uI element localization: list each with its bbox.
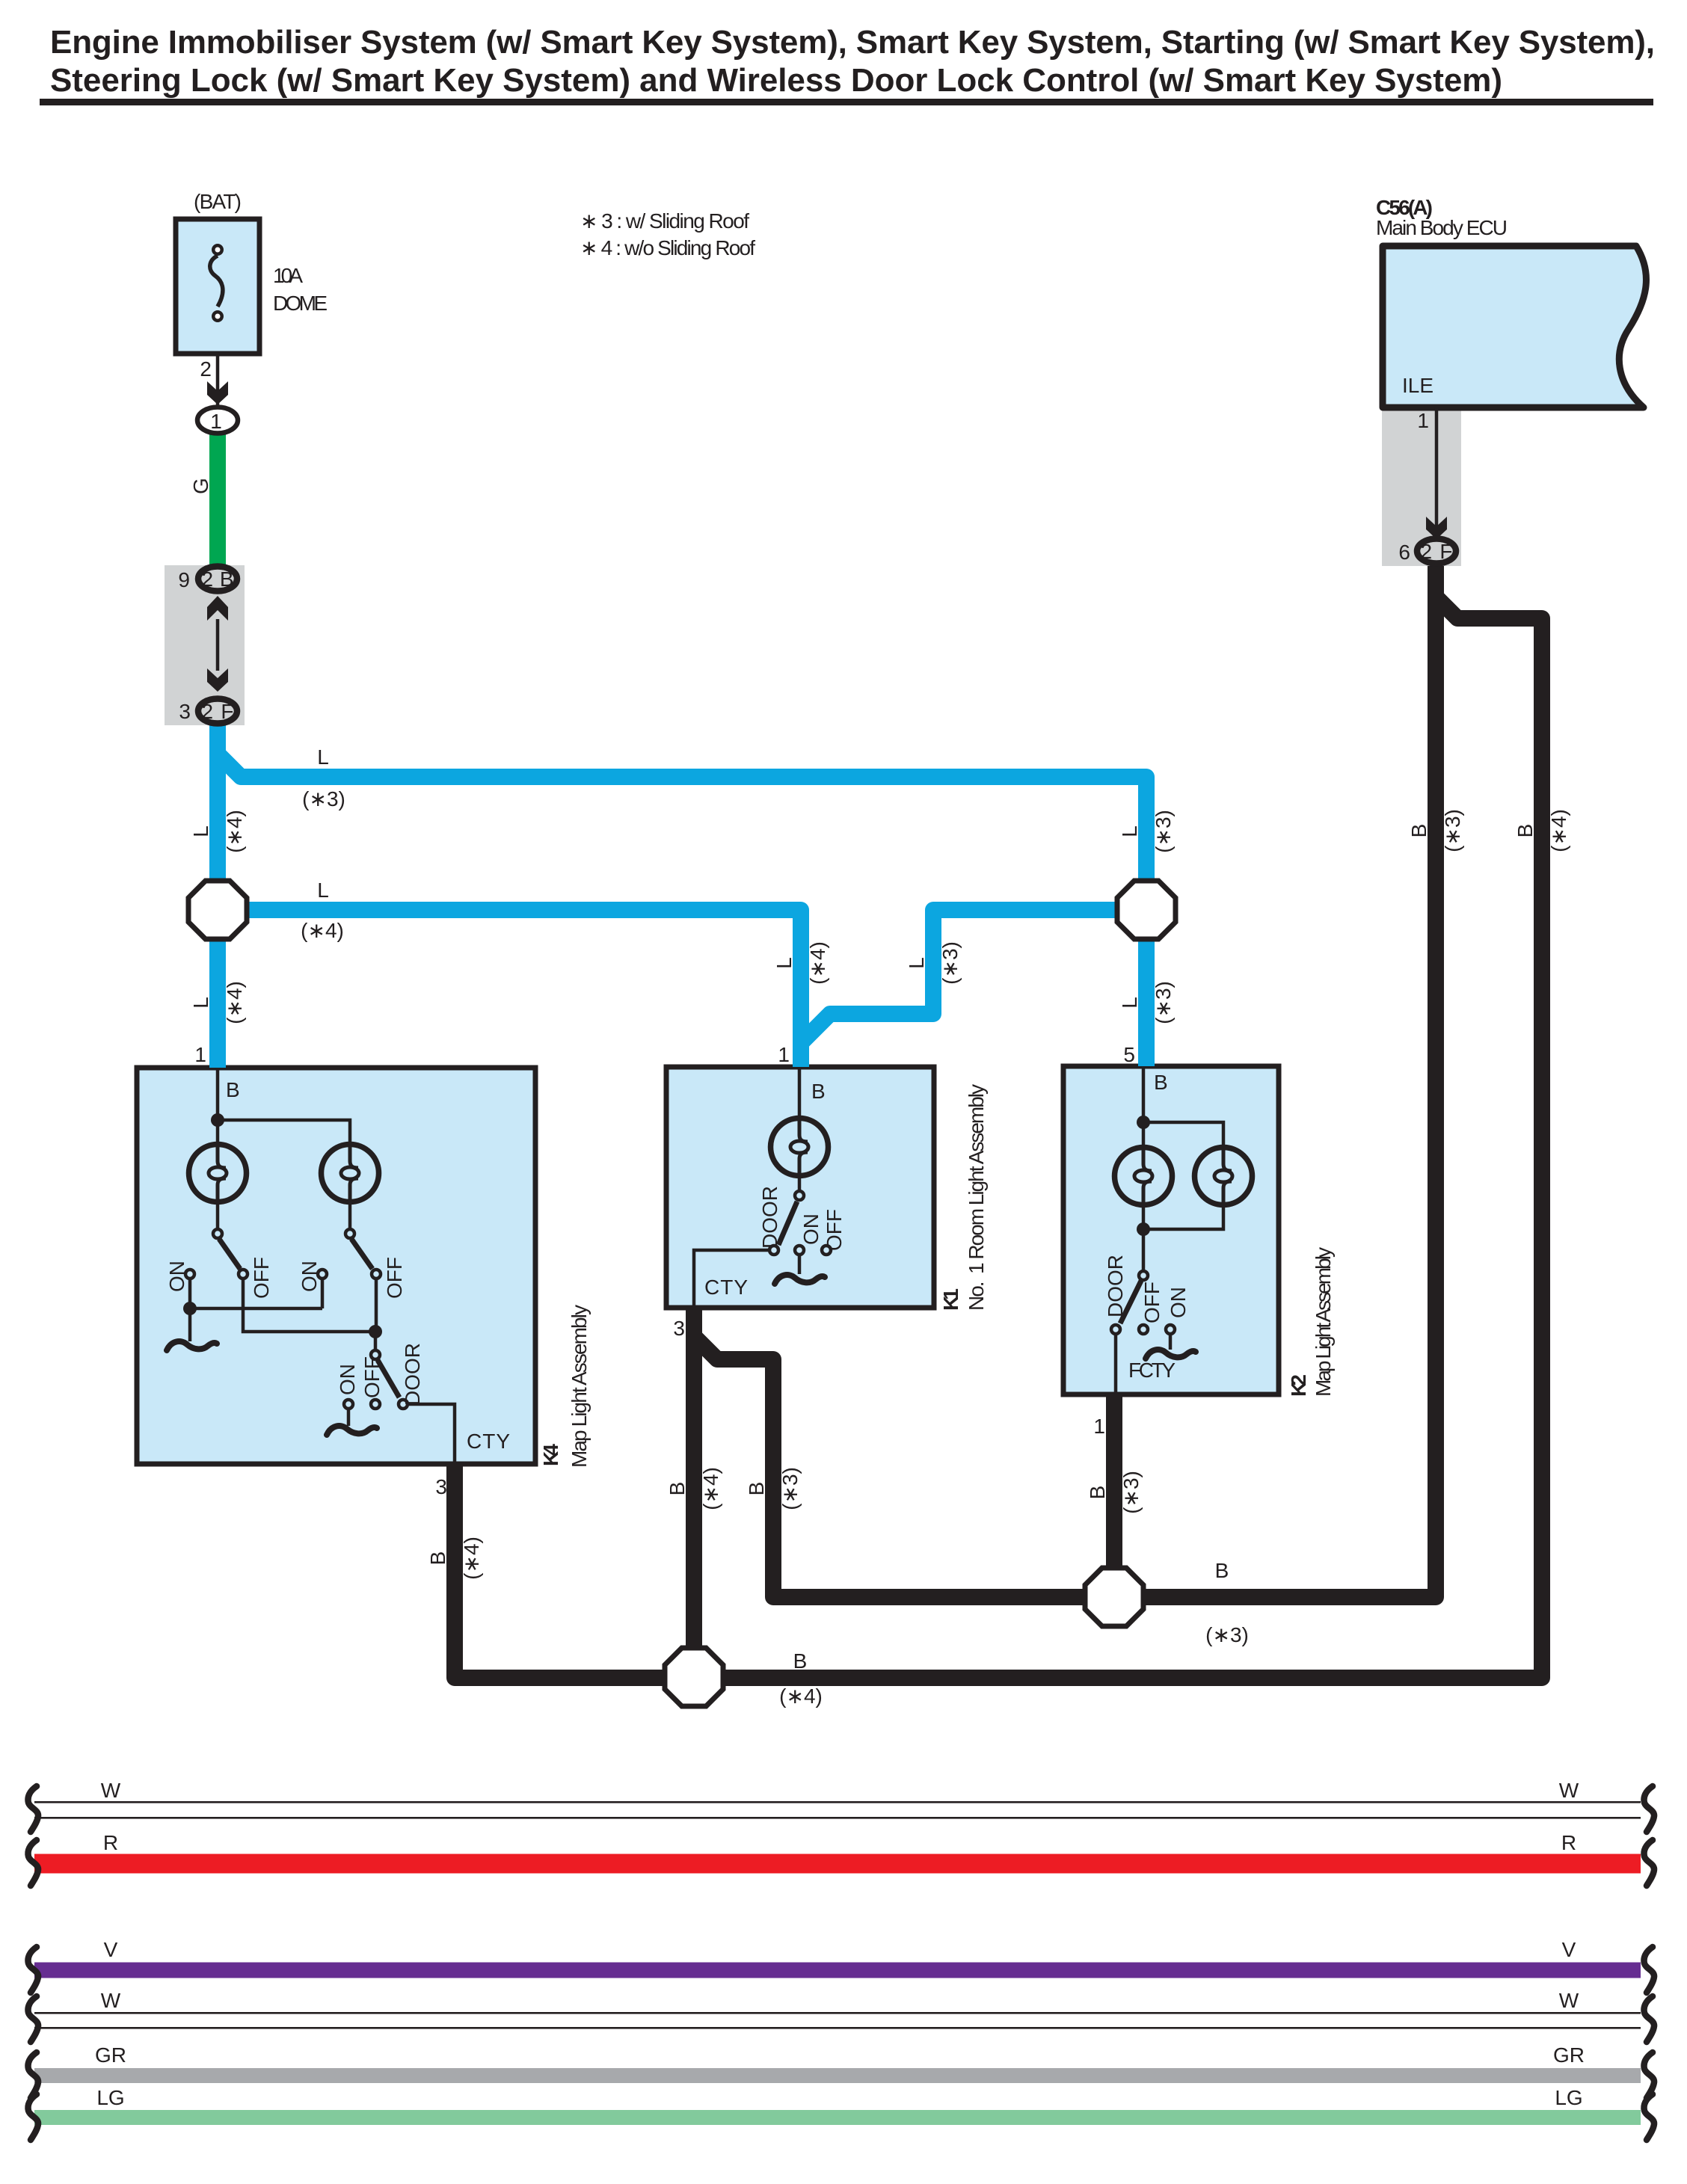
svg-text:V: V: [104, 1938, 118, 1961]
svg-text:Map Light Assembly: Map Light Assembly: [568, 1305, 591, 1468]
svg-text:V: V: [1562, 1938, 1576, 1961]
svg-text:OFF: OFF: [360, 1356, 384, 1398]
svg-text:No. 1 Room Light Assembly: No. 1 Room Light Assembly: [965, 1084, 988, 1311]
svg-text:R: R: [103, 1831, 118, 1854]
svg-text:9: 9: [178, 568, 190, 591]
svg-text:1: 1: [1417, 409, 1429, 432]
svg-text:G: G: [189, 478, 212, 494]
svg-text:W: W: [1559, 1779, 1579, 1802]
svg-text:B: B: [1086, 1486, 1109, 1500]
svg-text:(∗3): (∗3): [1152, 981, 1175, 1024]
svg-text:(∗3): (∗3): [1205, 1623, 1249, 1646]
svg-text:CTY: CTY: [704, 1276, 748, 1299]
svg-text:Main Body ECU: Main Body ECU: [1376, 216, 1508, 239]
svg-text:1: 1: [210, 410, 222, 433]
svg-text:L: L: [1118, 997, 1141, 1009]
svg-text:L: L: [189, 825, 212, 837]
svg-text:DOME: DOME: [273, 292, 328, 315]
svg-text:1: 1: [194, 1043, 206, 1066]
svg-text:DOOR: DOOR: [1104, 1255, 1127, 1317]
svg-text:Steering Lock (w/ Smart Key Sy: Steering Lock (w/ Smart Key System) and …: [50, 62, 1502, 99]
svg-text:B: B: [1154, 1071, 1168, 1094]
svg-text:B: B: [811, 1080, 826, 1103]
svg-text:ON: ON: [165, 1261, 188, 1292]
svg-text:Engine Immobiliser System (w/: Engine Immobiliser System (w/ Smart Key …: [50, 24, 1655, 61]
svg-text:ILE: ILE: [1402, 374, 1434, 397]
svg-text:CTY: CTY: [467, 1430, 510, 1453]
svg-text:R: R: [1561, 1831, 1576, 1854]
svg-text:3: 3: [179, 700, 191, 723]
svg-text:W: W: [1559, 1989, 1579, 2012]
svg-text:OFF: OFF: [823, 1209, 846, 1251]
svg-text:W: W: [101, 1989, 121, 2012]
svg-text:L: L: [317, 745, 329, 769]
svg-text:OFF: OFF: [1140, 1282, 1164, 1323]
svg-text:(∗3): (∗3): [1441, 809, 1464, 852]
svg-text:FCTY: FCTY: [1128, 1359, 1176, 1382]
svg-text:B: B: [745, 1482, 768, 1496]
svg-text:(∗4): (∗4): [699, 1467, 722, 1510]
svg-text:3: 3: [435, 1475, 447, 1498]
svg-text:LG: LG: [96, 2086, 124, 2109]
svg-text:1: 1: [1093, 1415, 1105, 1438]
svg-text:L: L: [905, 957, 928, 969]
svg-text:6: 6: [1398, 541, 1410, 564]
svg-text:L: L: [189, 997, 212, 1009]
svg-text:(∗3): (∗3): [1119, 1471, 1143, 1514]
svg-text:ON: ON: [1167, 1287, 1190, 1318]
svg-text:(∗4): (∗4): [806, 941, 829, 985]
svg-text:L: L: [772, 957, 796, 969]
svg-text:(∗4): (∗4): [223, 810, 246, 853]
svg-text:3: 3: [673, 1317, 685, 1340]
svg-text:B: B: [1215, 1559, 1229, 1582]
svg-text:ON: ON: [799, 1213, 823, 1245]
svg-text:DOOR: DOOR: [758, 1186, 781, 1249]
svg-text:B: B: [1407, 824, 1431, 838]
svg-text:L: L: [317, 879, 329, 902]
svg-text:(∗3): (∗3): [302, 787, 345, 810]
svg-text:OFF: OFF: [250, 1257, 273, 1299]
svg-text:(∗3): (∗3): [938, 941, 962, 985]
svg-text:B: B: [793, 1649, 808, 1673]
svg-text:ON: ON: [298, 1261, 321, 1292]
svg-text:B: B: [226, 1078, 240, 1101]
svg-text:(∗4): (∗4): [301, 919, 344, 942]
svg-text:DOOR: DOOR: [401, 1343, 424, 1406]
svg-text:(∗3): (∗3): [778, 1467, 802, 1510]
svg-text:OFF: OFF: [383, 1257, 406, 1299]
svg-text:B: B: [666, 1482, 689, 1496]
svg-text:GR: GR: [1553, 2043, 1585, 2067]
svg-text:LG: LG: [1555, 2086, 1582, 2109]
svg-text:(BAT): (BAT): [194, 190, 242, 213]
svg-text:Map Light Assembly: Map Light Assembly: [1312, 1247, 1335, 1397]
svg-text:(∗4): (∗4): [223, 981, 246, 1024]
svg-text:5: 5: [1123, 1043, 1135, 1066]
svg-text:∗ 4 : w/o Sliding Roof: ∗ 4 : w/o Sliding Roof: [580, 236, 755, 259]
svg-text:1: 1: [778, 1043, 790, 1066]
svg-text:(∗4): (∗4): [460, 1537, 483, 1580]
svg-text:10A: 10A: [273, 264, 303, 287]
svg-text:L: L: [1118, 825, 1141, 837]
svg-text:K2: K2: [1287, 1374, 1310, 1397]
svg-text:(∗4): (∗4): [779, 1685, 823, 1708]
svg-text:(∗4): (∗4): [1547, 809, 1570, 852]
svg-text:GR: GR: [95, 2043, 126, 2067]
svg-text:B: B: [1514, 824, 1537, 838]
svg-text:∗ 3 : w/ Sliding Roof: ∗ 3 : w/ Sliding Roof: [580, 209, 749, 233]
svg-text:K4: K4: [539, 1444, 562, 1466]
svg-text:B: B: [426, 1551, 449, 1566]
svg-text:2: 2: [200, 357, 212, 381]
svg-text:ON: ON: [336, 1364, 359, 1395]
svg-text:W: W: [101, 1779, 121, 1802]
svg-text:(∗3): (∗3): [1152, 810, 1175, 853]
svg-text:K1: K1: [939, 1288, 962, 1311]
